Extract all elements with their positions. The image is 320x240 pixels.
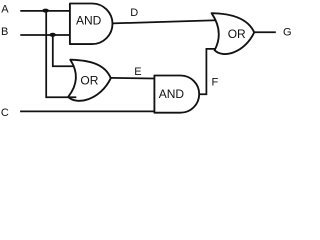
OR gate U4 (inputs D,F output G) xyxy=(212,13,255,54)
svg-text:OR: OR xyxy=(80,74,98,88)
AND gate U1 (inputs A,B output D) xyxy=(70,4,113,45)
wire D: AND1 output to OR2 upper input xyxy=(112,20,216,23)
wire C input xyxy=(20,110,154,112)
svg-text:B: B xyxy=(1,26,8,38)
wire A branch vertical to OR1 lower input xyxy=(46,11,76,97)
svg-text:AND: AND xyxy=(76,14,102,28)
OR gate U2 (inputs A,B output E) xyxy=(68,60,111,101)
svg-text:E: E xyxy=(134,66,141,78)
wire F: AND2 output up to OR2 lower input xyxy=(199,49,216,94)
wire B branch vertical to OR1 upper input xyxy=(53,35,75,66)
wire B input xyxy=(20,34,70,36)
svg-text:D: D xyxy=(130,7,138,19)
node junction dot on B xyxy=(50,33,56,37)
svg-text:AND: AND xyxy=(159,87,185,101)
svg-text:A: A xyxy=(1,3,9,15)
svg-text:G: G xyxy=(283,26,292,38)
node junction dot on A xyxy=(42,9,49,13)
svg-text:OR: OR xyxy=(228,27,246,41)
AND gate U3 (inputs E,C output F) xyxy=(154,76,199,113)
wire A input xyxy=(20,10,70,12)
wire E: OR1 output to AND2 input xyxy=(111,77,155,80)
wire G: OR2 output xyxy=(254,31,276,33)
svg-text:F: F xyxy=(212,77,219,89)
svg-text:C: C xyxy=(1,107,9,119)
